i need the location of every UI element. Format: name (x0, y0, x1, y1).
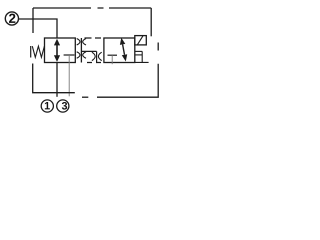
drain dashed segment upper (157, 43, 159, 51)
transition separator (80, 38, 82, 63)
label 1 (45, 102, 50, 109)
closed port mid (92, 52, 102, 60)
flow arrow pilot (123, 44, 125, 54)
transition top edge dashed (85, 37, 102, 39)
port 3 circle (57, 100, 69, 112)
valve box 1 (45, 38, 76, 63)
solenoid box (135, 36, 147, 45)
wire port2 leader (19, 19, 57, 38)
transition path (81, 51, 96, 62)
port 1 circle (41, 100, 53, 112)
drain elbow (135, 51, 149, 62)
blocked port T pilot (108, 54, 118, 56)
solenoid slash (137, 36, 143, 45)
port 3 line (68, 63, 70, 97)
label 3 (62, 102, 67, 110)
flow arrow main (56, 45, 58, 57)
pilot line top (33, 7, 151, 9)
pilot valve box (104, 38, 135, 63)
port 2 circle (5, 12, 18, 25)
drain dash bottom (82, 96, 88, 98)
blocked port T main (64, 54, 75, 56)
wire pilot drop (150, 8, 152, 36)
label 2 (9, 14, 15, 23)
drain stub lower (135, 54, 142, 56)
closed port bottom (77, 52, 86, 59)
spring anchor bar (30, 46, 32, 58)
spring W (32, 46, 44, 57)
wire pilot branch (32, 8, 34, 33)
drain line right (97, 64, 158, 97)
closed port top (77, 39, 86, 46)
wire port1 bus (33, 64, 75, 93)
port 1 line (56, 63, 58, 97)
transition bottom edge dashed (87, 62, 101, 64)
drain stub upper (135, 50, 142, 52)
